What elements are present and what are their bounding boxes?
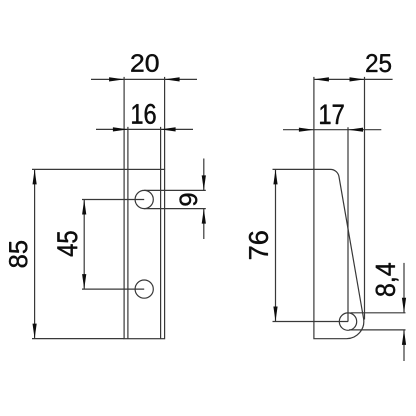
dim 45 arrow bottom <box>82 274 86 289</box>
dim 45 extension top (to upper hole centre) <box>82 199 144 201</box>
dim 25 arrow left <box>314 77 329 81</box>
dim 9 leader upper segment <box>203 159 205 191</box>
dim 25 arrow right <box>350 77 365 81</box>
dim 17 extension right (to hole centre) <box>347 127 349 321</box>
dim 85 line <box>34 169 36 338</box>
dim 45 line <box>83 200 85 290</box>
dim 17 arrow left <box>299 128 314 132</box>
dim 25 line <box>314 78 393 80</box>
label 17 <box>320 105 343 124</box>
front view inner edge right (with extension up for dim 16) <box>160 127 162 339</box>
dim 9 arrow up <box>202 209 206 224</box>
front view outer edge extension left for dim 20 <box>123 77 125 169</box>
front view outline <box>124 169 165 338</box>
dim 45 arrow top <box>82 200 86 215</box>
dim 25 extension right <box>364 77 366 320</box>
dim 76 extension bottom (to hole centre) <box>273 321 349 323</box>
dim 85 arrow top <box>33 169 37 184</box>
hole bottom front view <box>135 280 153 298</box>
dim 8,4 leader upper segment <box>403 263 405 313</box>
label 9 <box>180 194 198 206</box>
dim 8,4 arrow up <box>402 330 406 345</box>
dim 9 arrow down <box>202 175 206 190</box>
dim 20 arrow left <box>109 77 124 81</box>
dim 9 tangent line top <box>144 189 206 191</box>
label 85 <box>9 241 27 267</box>
dim 25 extension left (part edge extended) <box>313 77 315 169</box>
label 20 <box>131 54 158 72</box>
label 25 <box>366 54 391 72</box>
front view outer edge extension right for dim 20 <box>164 77 166 169</box>
dim 16 arrow left <box>113 127 128 131</box>
dim 17 line <box>283 129 381 131</box>
label 76 <box>249 231 268 259</box>
dim 45 extension bottom (to lower hole centre) <box>82 288 144 290</box>
dim 76 arrow bottom <box>273 307 277 322</box>
label 16 <box>132 104 155 124</box>
front view inner edge left (with extension up for dim 16) <box>127 127 129 339</box>
dim 16 line <box>96 128 193 130</box>
dim 9 leader lower segment <box>203 209 205 239</box>
hole side view <box>339 313 356 330</box>
dim 9 tangent line bottom <box>144 208 206 210</box>
label 8,4 <box>376 263 399 296</box>
dim 8,4 extension bottom (hole bottom tangent) <box>349 329 406 331</box>
dim 76 extension top <box>273 168 314 170</box>
dim 8,4 arrow down <box>402 298 406 313</box>
dim 20 arrow right <box>165 77 180 81</box>
dim 85 arrow bottom <box>33 324 37 339</box>
dim 85 extension top <box>32 168 124 170</box>
dim 8,4 leader lower segment <box>403 330 405 361</box>
side view outline <box>314 169 364 338</box>
dim 17 arrow right <box>348 128 363 132</box>
dim 8,4 extension top (hole top tangent) <box>351 312 406 314</box>
dim 76 line <box>275 169 277 321</box>
dim 20 line <box>91 78 197 80</box>
dim 16 arrow right <box>161 127 176 131</box>
hole top front view <box>135 190 153 208</box>
label 45 <box>57 231 77 256</box>
dim 76 arrow top <box>273 169 277 184</box>
dim 85 extension bottom <box>32 338 124 340</box>
